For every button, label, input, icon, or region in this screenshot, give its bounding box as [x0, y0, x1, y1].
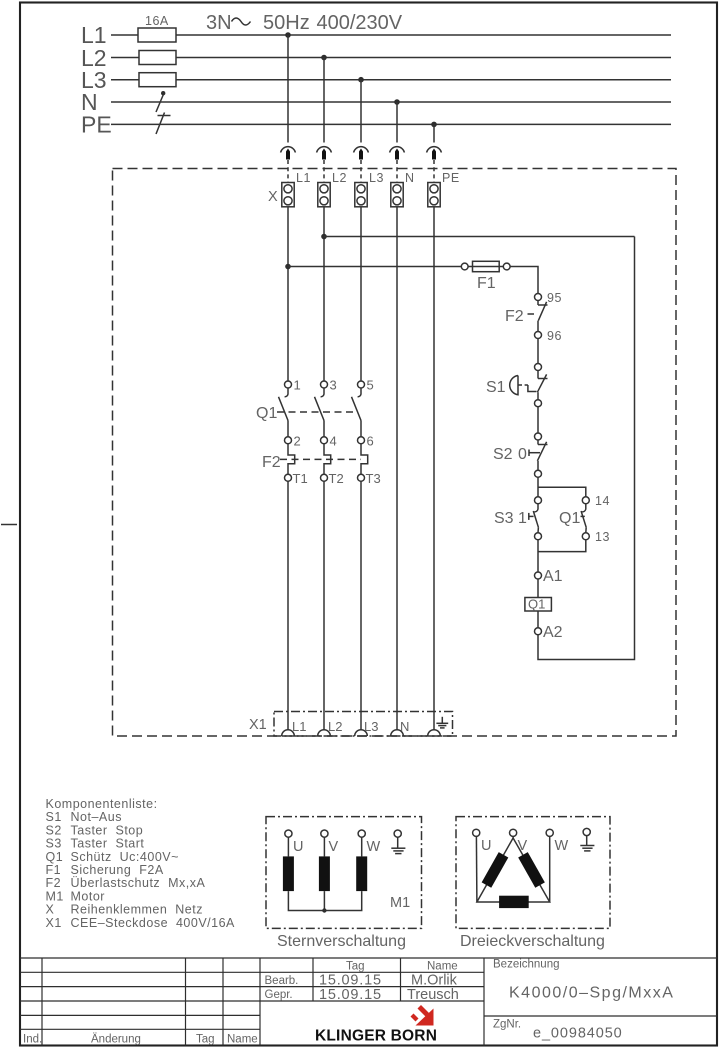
svg-text:13: 13 — [595, 530, 610, 544]
Q1 actuator dashed link — [277, 411, 357, 413]
svg-text:6: 6 — [367, 434, 374, 449]
svg-text:0: 0 — [518, 446, 527, 463]
wire control return — [538, 237, 635, 660]
star winding U — [283, 856, 294, 891]
wire L2 bus — [111, 57, 671, 59]
svg-text:PE: PE — [442, 171, 460, 185]
svg-text:Not–Aus: Not–Aus — [71, 810, 122, 824]
svg-text:S1: S1 — [46, 810, 62, 824]
svg-text:W: W — [555, 838, 569, 854]
svg-text:Komponentenliste:: Komponentenliste: — [46, 797, 158, 811]
star winding W — [356, 856, 367, 891]
wire control top rail — [324, 236, 635, 238]
svg-text:U: U — [293, 839, 303, 855]
fuse L2 — [139, 51, 176, 65]
wire N drop — [396, 102, 398, 143]
wire L3 bus — [111, 79, 671, 81]
svg-text:L1: L1 — [296, 171, 311, 185]
svg-text:KLINGER BORN: KLINGER BORN — [315, 1028, 437, 1045]
svg-text:L3: L3 — [369, 171, 384, 185]
wire coil to A2 — [537, 611, 539, 628]
connector PE — [427, 147, 442, 182]
wire branch top — [538, 487, 586, 497]
header 3N~ 50Hz 400/230V — [206, 12, 403, 34]
terminal X PE — [428, 171, 460, 207]
node PE tap — [431, 122, 437, 128]
svg-text:Dreieckverschaltung: Dreieckverschaltung — [460, 933, 605, 950]
wire F1 to control chain — [510, 267, 538, 294]
svg-text:Schütz Uc:400V~: Schütz Uc:400V~ — [71, 850, 179, 864]
wire L3 vertical to contact 5 — [360, 207, 362, 381]
star winding V — [319, 856, 330, 891]
svg-text:Sicherung F2A: Sicherung F2A — [71, 863, 164, 877]
svg-text:U: U — [481, 838, 491, 854]
contact F2 NC overload — [505, 301, 548, 326]
component list — [46, 797, 236, 930]
delta terminal W — [546, 829, 568, 902]
wire PE bus — [111, 123, 671, 125]
svg-text:S2: S2 — [493, 446, 513, 463]
wire L3 drop — [360, 80, 362, 143]
svg-text:Reihenklemmen Netz: Reihenklemmen Netz — [71, 903, 203, 917]
X1 PE earth symbol — [436, 717, 448, 728]
svg-text:N: N — [400, 719, 409, 734]
svg-text:Bearb.: Bearb. — [265, 975, 299, 987]
node N tap — [394, 99, 400, 105]
svg-text:F2: F2 — [262, 454, 281, 471]
socket X1 L2 — [318, 719, 343, 736]
node L2 tap — [321, 55, 327, 61]
svg-text:PE: PE — [81, 112, 112, 138]
label M1 — [390, 895, 410, 911]
delta earth terminal — [580, 828, 594, 851]
pin 95 — [535, 291, 562, 305]
star terminal W — [358, 830, 380, 856]
star terminal V — [321, 830, 339, 856]
caption Dreieckverschaltung — [460, 933, 605, 950]
pin 5 — [358, 378, 374, 393]
svg-text:Änderung: Änderung — [91, 1034, 141, 1046]
svg-text:96: 96 — [547, 329, 562, 343]
label Q1 main — [256, 405, 277, 422]
svg-text:Q1: Q1 — [559, 510, 580, 527]
svg-text:M1: M1 — [390, 895, 410, 911]
delta winding V-W — [518, 852, 545, 888]
overload F2 pole 2 — [324, 444, 331, 475]
svg-text:Tag: Tag — [346, 961, 365, 973]
node control tap L2 — [321, 234, 327, 240]
svg-text:CEE–Steckdose 400V/16A: CEE–Steckdose 400V/16A — [71, 916, 236, 930]
pin 3 — [321, 378, 337, 393]
contact Q1 pole 1 — [279, 388, 289, 437]
title block texts — [23, 959, 674, 1046]
svg-text:M1: M1 — [46, 889, 64, 903]
svg-text:Name: Name — [227, 1034, 258, 1046]
delta winding U-V — [482, 852, 509, 888]
star connection box — [266, 817, 422, 929]
svg-text:Ind.: Ind. — [23, 1034, 42, 1046]
svg-text:S3: S3 — [494, 510, 514, 527]
terminal X L1 — [282, 171, 311, 207]
wire S1 to S2 — [537, 407, 539, 433]
wire N vertical — [396, 207, 398, 730]
wire L1 drop — [287, 35, 289, 143]
switch S3 Taster Start NO — [494, 497, 542, 540]
pin T1 — [285, 471, 308, 486]
svg-text:1: 1 — [518, 510, 527, 527]
svg-text:F2: F2 — [505, 308, 524, 325]
svg-text:Taster Stop: Taster Stop — [71, 823, 144, 837]
socket X1 PE — [428, 730, 441, 736]
star point wiring — [288, 891, 361, 913]
svg-text:50Hz: 50Hz — [263, 12, 310, 34]
X1 socket strip box — [274, 712, 453, 737]
pin T2 — [321, 471, 344, 486]
svg-text:X1: X1 — [249, 717, 267, 733]
svg-text:S1: S1 — [486, 379, 506, 396]
wire T3 down — [360, 481, 362, 729]
label X terminal strip — [268, 189, 278, 205]
overload F2 pole 3 — [361, 444, 368, 475]
svg-text:V: V — [329, 839, 339, 855]
svg-text:15.09.15: 15.09.15 — [319, 987, 382, 1003]
svg-text:Sternverschaltung: Sternverschaltung — [277, 933, 406, 950]
svg-text:1: 1 — [294, 378, 301, 393]
wire PE vertical — [433, 207, 435, 731]
contact Q1 pole 3 — [352, 388, 362, 437]
pin T3 — [358, 471, 381, 486]
svg-text:ZgNr.: ZgNr. — [493, 1019, 521, 1031]
wire A1 to coil — [537, 579, 539, 598]
wire T2 down — [323, 481, 325, 729]
switch S2 Taster Stop NC — [493, 433, 548, 477]
svg-text:V: V — [518, 838, 528, 854]
socket X1 N — [391, 719, 410, 736]
wire 96 to S1 — [537, 321, 539, 364]
switch S1 Not-Aus NC — [486, 364, 548, 407]
label PE — [81, 112, 112, 138]
PE isolating mark — [156, 113, 171, 135]
svg-text:Name: Name — [427, 961, 458, 973]
pin 2 — [285, 434, 301, 449]
svg-text:K4000/0–Spg/MxxA: K4000/0–Spg/MxxA — [509, 985, 674, 1002]
overload F2 pole 1 — [288, 444, 295, 475]
label X1 — [249, 717, 267, 733]
svg-text:F1: F1 — [477, 275, 496, 292]
svg-text:A2: A2 — [543, 624, 563, 641]
wire L1 bus — [111, 34, 671, 36]
svg-text:3: 3 — [330, 378, 337, 393]
node L1 tap — [285, 32, 291, 38]
svg-text:T2: T2 — [329, 471, 344, 486]
svg-text:L3: L3 — [364, 719, 378, 734]
delta terminal V — [509, 829, 527, 854]
star terminal U — [285, 830, 304, 856]
svg-text:400/230V: 400/230V — [317, 12, 403, 34]
delta connection box — [456, 817, 610, 929]
svg-text:Q1: Q1 — [46, 850, 64, 864]
wire L1 to fuse F1 — [288, 266, 462, 268]
terminal X N — [391, 171, 415, 207]
wire L2 drop — [323, 58, 325, 143]
star earth terminal — [391, 830, 405, 854]
connector L2 — [317, 147, 332, 182]
label L1 — [81, 22, 107, 48]
svg-text:X: X — [268, 189, 278, 205]
delta triangle wiring — [477, 838, 550, 902]
svg-text:L1: L1 — [292, 719, 306, 734]
wire L2 vertical to contact 3 — [323, 207, 325, 381]
connector L1 — [281, 147, 296, 182]
label L2 — [81, 45, 107, 71]
label 16A — [145, 14, 169, 28]
delta terminal U — [473, 829, 492, 902]
svg-text:14: 14 — [595, 494, 610, 508]
terminal X L3 — [355, 171, 384, 207]
svg-text:S2: S2 — [46, 823, 62, 837]
wire PE drop — [433, 124, 435, 142]
wire L1 vertical to contact 1 — [287, 207, 289, 381]
svg-text:Taster Start: Taster Start — [71, 837, 145, 851]
N isolating mark — [156, 91, 165, 112]
delta winding bottom — [499, 896, 529, 908]
svg-text:T1: T1 — [293, 471, 308, 486]
svg-text:Motor: Motor — [71, 889, 105, 903]
label N — [81, 89, 98, 115]
label L3 — [81, 67, 107, 93]
pin 96 — [535, 329, 562, 343]
svg-text:N: N — [405, 171, 415, 185]
svg-text:L2: L2 — [332, 171, 347, 185]
svg-text:Q1: Q1 — [528, 597, 545, 612]
svg-text:Überlastschutz Mx,xA: Überlastschutz Mx,xA — [71, 876, 206, 890]
svg-text:L2: L2 — [328, 719, 342, 734]
label F2 main — [262, 454, 281, 471]
svg-text:Q1: Q1 — [256, 405, 277, 422]
svg-text:Bezeichnung: Bezeichnung — [493, 959, 560, 971]
node L3 tap — [358, 77, 364, 83]
fuse F1 — [461, 261, 510, 292]
terminal X L2 — [318, 171, 347, 207]
pin A2 — [535, 624, 563, 641]
svg-text:5: 5 — [367, 378, 374, 393]
svg-text:X1: X1 — [46, 916, 62, 930]
wire S3 to A1 — [537, 540, 539, 572]
connector L3 — [354, 147, 369, 182]
contact Q1 NO aux 13-14 — [559, 494, 610, 544]
enclosure dashed box — [113, 169, 677, 737]
svg-text:W: W — [367, 839, 381, 855]
fuse L3 — [139, 73, 176, 87]
svg-text:F2: F2 — [46, 876, 62, 890]
pin 4 — [321, 434, 337, 449]
title block grid — [20, 958, 717, 1046]
svg-text:3N: 3N — [206, 12, 232, 34]
svg-text:T3: T3 — [366, 471, 381, 486]
svg-text:16A: 16A — [145, 14, 169, 28]
svg-text:2: 2 — [294, 434, 301, 449]
pin 6 — [358, 434, 374, 449]
svg-text:4: 4 — [330, 434, 337, 449]
svg-text:S3: S3 — [46, 837, 62, 851]
svg-text:X: X — [46, 903, 55, 917]
wire branch bottom — [538, 540, 586, 552]
pin 1 — [285, 378, 301, 393]
socket X1 L3 — [355, 719, 379, 736]
fuse L1 16A — [138, 28, 176, 42]
wire S2 to branch — [537, 477, 539, 497]
contact Q1 pole 2 — [315, 388, 325, 437]
wire N bus — [111, 101, 671, 103]
caption Sternverschaltung — [277, 933, 406, 950]
svg-text:Gepr.: Gepr. — [265, 989, 293, 1001]
wire T1 down — [287, 481, 289, 729]
svg-text:95: 95 — [547, 291, 562, 305]
svg-text:A1: A1 — [543, 568, 563, 585]
connector N — [390, 147, 405, 182]
logo KLINGER BORN — [315, 1028, 437, 1045]
logo red arrow — [411, 1005, 434, 1026]
coil Q1 — [525, 597, 552, 612]
F2 actuator dashed link — [280, 458, 361, 460]
fold mark left edge — [1, 524, 17, 526]
svg-text:Tag: Tag — [196, 1034, 215, 1046]
pin A1 — [535, 568, 563, 585]
svg-text:F1: F1 — [46, 863, 62, 877]
node control tap L1 — [285, 264, 291, 270]
svg-text:e_00984050: e_00984050 — [533, 1026, 623, 1042]
svg-text:Treusch: Treusch — [407, 987, 459, 1003]
socket X1 L1 — [282, 719, 307, 736]
